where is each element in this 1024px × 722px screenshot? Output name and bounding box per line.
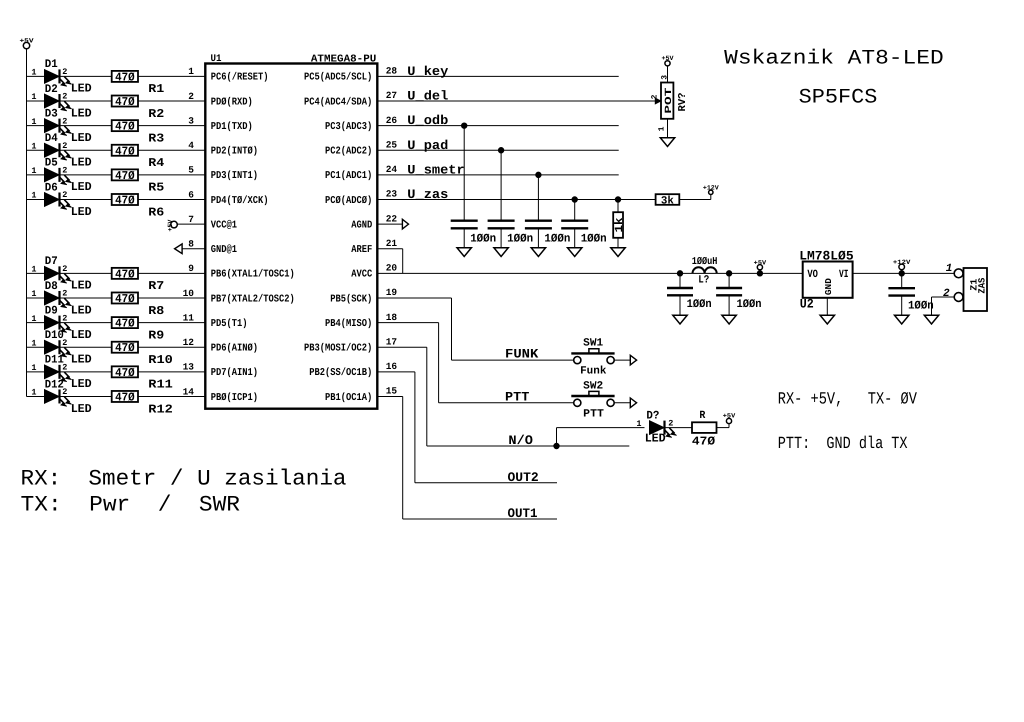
wire pin 17 to N/O [377,336,427,446]
wire [138,371,205,373]
junction [615,197,620,202]
svg-text:PB1(OC1A): PB1(OC1A) [325,392,372,404]
svg-text:1: 1 [31,265,36,275]
svg-text:PC2(ADC2): PC2(ADC2) [325,146,372,158]
svg-text:U_zas: U_zas [407,187,448,202]
LED D8 [31,280,91,318]
resistor R 470 [692,410,717,448]
svg-text:PD1(TXD): PD1(TXD) [211,121,253,133]
svg-text:1ØØn: 1ØØn [507,232,533,245]
svg-text:SW2: SW2 [583,380,603,392]
pin 6 U1 [188,189,194,200]
junction [677,271,682,276]
pin 14 U1 [183,386,195,397]
wire [138,297,205,299]
wire [60,174,112,176]
LED D7 [31,255,91,293]
node FUNK output arrow [630,355,636,365]
node PTT output arrow [630,398,636,408]
svg-text:R1: R1 [148,82,164,96]
inductor L? 100uH [692,256,718,286]
wire [557,428,645,446]
svg-text:TX: Pwr / SWR: TX: Pwr / SWR [21,492,241,517]
wire [717,427,730,429]
svg-text:LED: LED [71,106,92,120]
ground [895,315,909,324]
svg-text:PC1(ADC1): PC1(ADC1) [325,170,372,182]
pin 9 U1 [188,263,194,274]
svg-text:D1: D1 [45,58,58,71]
wire [138,125,205,127]
svg-text:U_smetr: U_smetr [407,162,464,177]
svg-text:1: 1 [657,126,666,131]
svg-text:LED: LED [71,131,92,145]
capacitor 100n at VI [888,273,933,315]
capacitor 100n at AVCC [667,273,712,315]
svg-text:ATMEGA8-PU: ATMEGA8-PU [311,53,376,65]
svg-text:R: R [699,410,705,422]
svg-text:1: 1 [31,166,36,176]
power +5V pin 7 VCC@1 [167,214,205,232]
svg-text:U_pad: U_pad [407,138,448,153]
svg-text:R7: R7 [148,279,164,293]
wire [138,174,205,176]
text RX- +5V TX- 0V [778,390,918,409]
svg-text:U2: U2 [800,297,814,312]
svg-text:15: 15 [386,386,398,397]
svg-text:PTT: GND dla TX: PTT: GND dla TX [778,435,908,454]
capacitor C2 100n [488,150,534,247]
svg-text:RV?: RV? [677,93,689,112]
svg-text:47Ø: 47Ø [115,292,135,306]
wire rail to LED D11 [27,371,45,373]
svg-text:1: 1 [31,92,36,102]
net U_pad pin 25 [377,138,618,153]
pin 10 U1 [183,288,195,299]
svg-text:PB6(XTAL1/TOSC1): PB6(XTAL1/TOSC1) [211,269,295,281]
switch SW2 PTT [571,380,614,420]
svg-text:PCØ(ADCØ): PCØ(ADCØ) [325,195,372,207]
connector Z1 ZAS [932,263,988,315]
svg-text:1ØØn: 1ØØn [687,298,712,311]
svg-text:RX: Smetr / U zasilania: RX: Smetr / U zasilania [21,466,347,491]
svg-text:3: 3 [188,115,194,126]
svg-text:1: 1 [31,338,36,348]
title SP5FCS [799,86,878,109]
LED D11 [31,354,91,392]
wire [614,359,630,361]
wire rail to LED D3 [27,125,45,127]
svg-text:3k: 3k [661,195,674,207]
resistor 1k [613,200,626,248]
svg-text:28: 28 [386,66,398,77]
svg-text:47Ø: 47Ø [115,120,135,134]
pin 4 U1 [188,140,194,151]
svg-text:R11: R11 [148,378,173,392]
svg-text:8: 8 [188,239,194,250]
resistor R4 470 [112,144,165,170]
wire [138,346,205,348]
wire [138,322,205,324]
svg-text:2: 2 [62,338,67,348]
svg-text:Wskaznik AT8-LED: Wskaznik AT8-LED [724,47,944,70]
svg-text:+5V: +5V [754,259,767,266]
svg-text:PTT: PTT [583,409,604,421]
svg-text:U_key: U_key [407,64,448,79]
ground [660,138,674,147]
ground [673,315,687,324]
net U_key pin 28 [377,64,618,79]
resistor R10 470 [112,341,173,367]
pin 1 U1 [188,66,194,77]
svg-text:PB4(MISO): PB4(MISO) [325,318,372,330]
ground [722,315,736,324]
wire [665,427,693,429]
svg-text:1ØØn: 1ØØn [581,232,607,245]
net OUT1 [403,506,557,521]
pin 12 U1 [183,337,195,348]
svg-text:25: 25 [386,139,398,150]
capacitor C1 100n [451,126,497,248]
svg-text:PD2(INTØ): PD2(INTØ) [211,146,258,158]
svg-text:PB3(MOSI/OC2): PB3(MOSI/OC2) [304,343,372,355]
wire pin 16 to OUT2 [377,361,415,483]
LED D5 [31,157,91,195]
svg-text:D10: D10 [45,329,64,342]
wire [60,371,112,373]
svg-text:2: 2 [943,288,950,300]
svg-text:LED: LED [71,180,92,194]
svg-text:SP5FCS: SP5FCS [799,86,878,109]
wire [60,199,112,201]
svg-text:PDØ(RXD): PDØ(RXD) [211,96,253,108]
svg-text:D2: D2 [45,83,58,96]
svg-text:LED: LED [645,432,666,446]
svg-text:13: 13 [183,362,195,373]
svg-text:LED: LED [71,402,92,416]
net U_zas pin 23 [377,187,655,202]
resistor R9 470 [112,317,165,343]
svg-text:D8: D8 [45,280,58,293]
wire [614,402,630,404]
svg-text:7: 7 [188,214,194,225]
svg-text:D9: D9 [45,304,58,317]
svg-text:3: 3 [660,75,669,80]
svg-text:FUNK: FUNK [505,347,538,362]
LED D10 [31,329,91,367]
svg-text:N/O: N/O [508,433,533,448]
svg-text:R12: R12 [148,402,173,416]
potentiometer RV? POT [651,75,689,138]
svg-text:U1: U1 [211,54,222,65]
net N/O [427,433,630,448]
svg-text:2: 2 [62,289,67,299]
svg-text:+12V: +12V [703,184,719,191]
svg-text:LED: LED [71,377,92,391]
pin 5 U1 [188,165,194,176]
resistor R5 470 [112,169,165,195]
svg-text:1k: 1k [614,217,626,232]
LED D4 [31,132,91,170]
power +12V at VI [893,259,911,276]
svg-text:PB5(SCK): PB5(SCK) [330,293,372,305]
junction [462,123,467,128]
svg-text:D4: D4 [45,132,58,145]
resistor R3 470 [112,120,165,146]
svg-text:RX- +5V, TX- ØV: RX- +5V, TX- ØV [778,390,918,409]
svg-text:PD5(T1): PD5(T1) [211,318,248,330]
svg-text:47Ø: 47Ø [115,317,135,331]
svg-text:VI: VI [839,269,849,281]
svg-text:9: 9 [188,263,194,274]
wire [60,149,112,151]
svg-text:19: 19 [386,287,398,298]
svg-text:1: 1 [31,363,36,373]
svg-text:47Ø: 47Ø [115,267,135,281]
svg-text:PD3(INT1): PD3(INT1) [211,170,258,182]
svg-text:PD6(AINØ): PD6(AINØ) [211,343,258,355]
svg-text:VO: VO [807,269,818,281]
wire [138,199,205,201]
svg-text:47Ø: 47Ø [115,194,135,208]
power +5V at D? [723,413,736,428]
power +12V [703,184,719,199]
svg-text:PC3(ADC3): PC3(ADC3) [325,121,372,133]
svg-text:22: 22 [386,213,398,224]
svg-text:47Ø: 47Ø [692,435,715,449]
wire pin 15 to OUT1 [377,386,402,519]
svg-text:2: 2 [62,363,67,373]
svg-text:OUT1: OUT1 [508,506,538,521]
svg-text:2: 2 [62,92,67,102]
svg-text:PB7(XTAL2/TOSC2): PB7(XTAL2/TOSC2) [211,293,295,305]
resistor R11 470 [112,366,173,392]
svg-text:1: 1 [946,263,953,275]
svg-text:L?: L? [698,274,709,286]
svg-text:LED: LED [71,156,92,170]
svg-text:2: 2 [62,166,67,176]
net AVCC pin 20 [377,263,802,274]
svg-text:AVCC: AVCC [351,269,373,281]
svg-text:4: 4 [188,140,194,151]
svg-text:12: 12 [183,337,195,348]
svg-text:20: 20 [386,263,398,274]
pin 3 U1 [188,115,194,126]
svg-text:1: 1 [636,419,641,429]
svg-text:21: 21 [386,238,398,249]
wire rail to LED D12 [27,395,45,397]
svg-text:R3: R3 [148,131,164,145]
resistor R2 470 [112,95,165,121]
svg-text:SW1: SW1 [583,338,603,350]
svg-text:26: 26 [386,115,398,126]
svg-text:1: 1 [31,314,36,324]
pin 11 U1 [183,312,195,323]
svg-text:U_odb: U_odb [407,113,448,128]
regulator U2 LM78L05 [799,248,854,315]
svg-text:PTT: PTT [505,389,530,404]
svg-text:Funk: Funk [580,365,607,377]
svg-text:47Ø: 47Ø [115,390,135,404]
svg-text:47Ø: 47Ø [115,144,135,158]
wire [60,125,112,127]
svg-text:R10: R10 [148,353,173,367]
svg-text:27: 27 [386,90,398,101]
IC U1 ATMEGA8-PU [205,53,377,408]
svg-text:1: 1 [31,388,36,398]
wire [853,272,955,274]
svg-text:24: 24 [386,164,398,175]
svg-text:2: 2 [62,116,67,126]
wire [679,199,711,201]
ground [457,248,471,257]
wire rail to LED D1 [27,75,45,77]
svg-text:LED: LED [71,303,92,317]
svg-text:D3: D3 [45,107,58,120]
svg-text:5: 5 [188,165,194,176]
svg-text:D11: D11 [45,354,64,367]
svg-text:1: 1 [31,141,36,151]
wire [138,395,205,397]
svg-text:R4: R4 [148,156,164,170]
svg-text:6: 6 [188,189,194,200]
svg-text:1: 1 [31,289,36,299]
ground [820,315,834,324]
wire rail to LED D6 [27,199,45,201]
resistor R6 470 [112,194,165,220]
svg-text:47Ø: 47Ø [115,95,135,109]
svg-text:1: 1 [31,191,36,201]
svg-text:11: 11 [183,312,195,323]
svg-text:D?: D? [646,410,659,423]
text TX: Pwr / SWR [21,492,241,517]
wire [60,297,112,299]
wire rail to LED D5 [27,174,45,176]
LED D9 [31,304,91,342]
net OUT2 [415,470,557,485]
svg-text:PD4(TØ/XCK): PD4(TØ/XCK) [211,195,269,207]
capacitor 100n after L? [716,273,761,315]
LED D6 [31,181,91,219]
wire [60,100,112,102]
resistor 3k [656,194,680,207]
svg-text:18: 18 [386,312,398,323]
wire [60,272,112,274]
svg-text:47Ø: 47Ø [115,169,135,183]
svg-text:47Ø: 47Ø [115,70,135,84]
svg-text:D6: D6 [45,181,58,194]
svg-text:D5: D5 [45,157,58,170]
svg-text:2: 2 [62,313,67,323]
svg-text:1: 1 [188,66,194,77]
LED D12 [31,378,91,416]
LED D? [636,410,676,446]
resistor R1 470 [112,70,165,96]
svg-text:GND@1: GND@1 [211,244,237,256]
svg-text:VCC@1: VCC@1 [211,219,237,231]
wire rail to LED D9 [27,322,45,324]
ground pin 8 GND@1 [175,239,206,254]
resistor R7 470 [112,267,165,293]
ground [924,315,938,324]
ground pin 22 AGND [377,213,408,229]
svg-text:PBØ(ICP1): PBØ(ICP1) [211,392,258,404]
power +5V at AVCC [754,259,767,276]
svg-text:AREF: AREF [351,244,372,256]
svg-text:PC4(ADC4/SDA): PC4(ADC4/SDA) [304,96,372,108]
ground [611,248,625,257]
ground [531,248,545,257]
svg-text:14: 14 [183,386,195,397]
wire rail to LED D10 [27,346,45,348]
net U_del pin 27 [377,89,655,104]
LED D3 [31,107,91,145]
svg-text:LED: LED [71,353,92,367]
svg-text:LED: LED [71,205,92,219]
wire rail to LED D8 [27,297,45,299]
switch SW1 Funk [571,338,614,378]
svg-text:17: 17 [386,336,398,347]
ground [494,248,508,257]
resistor R12 470 [112,390,173,416]
svg-text:1ØØn: 1ØØn [908,300,934,313]
resistor R8 470 [112,292,165,318]
capacitor C4 100n [561,200,607,248]
svg-text:2: 2 [188,91,194,102]
svg-text:D12: D12 [45,378,64,391]
ground [568,248,582,257]
power +5V rail supply [20,38,34,397]
svg-text:PC6(/RESET): PC6(/RESET) [211,72,269,84]
svg-text:1: 1 [31,117,36,127]
svg-text:LED: LED [71,82,92,96]
pin 13 U1 [183,362,195,373]
svg-text:GND: GND [824,277,834,295]
svg-text:+12V: +12V [893,259,911,266]
svg-text:2: 2 [62,190,67,200]
wire [138,100,205,102]
wire pin 21 AREF [377,238,402,273]
svg-text:47Ø: 47Ø [115,341,135,355]
text PTT: GND dla TX [778,435,908,454]
svg-text:R5: R5 [148,181,164,195]
junction [572,197,577,202]
svg-text:10: 10 [183,288,195,299]
net FUNK [452,347,574,362]
svg-text:23: 23 [386,189,398,200]
svg-text:D7: D7 [45,255,58,268]
svg-text:R8: R8 [148,304,164,318]
wire pin 18 to PTT [377,312,438,403]
wire [60,322,112,324]
net PTT [439,389,574,404]
svg-text:2: 2 [62,264,67,274]
svg-text:+5V: +5V [20,38,34,45]
svg-text:R6: R6 [148,205,164,219]
svg-text:16: 16 [386,361,398,372]
svg-text:LED: LED [71,328,92,342]
wire [60,75,112,77]
svg-text:PD7(AIN1): PD7(AIN1) [211,367,258,379]
wire [60,395,112,397]
svg-text:1ØØn: 1ØØn [544,232,570,245]
text RX: Smetr / U zasilania [21,466,347,491]
wire rail to LED D4 [27,149,45,151]
svg-text:PB2(SS/OC1B): PB2(SS/OC1B) [309,367,372,379]
svg-text:2: 2 [668,418,673,428]
LED D2 [31,83,91,121]
junction [554,443,559,448]
